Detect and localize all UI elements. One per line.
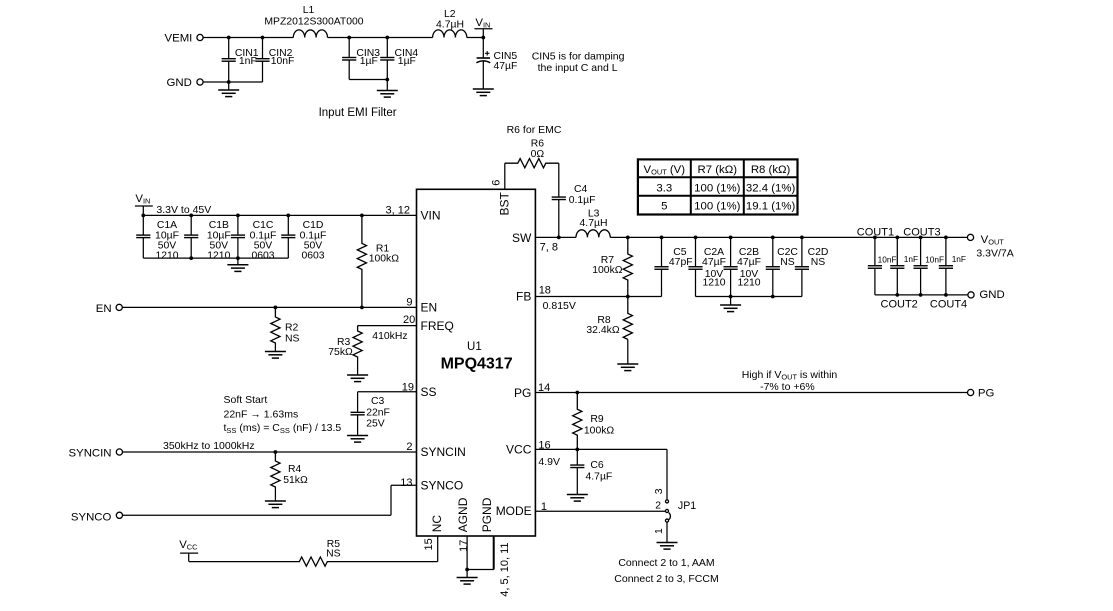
- svg-text:0.1µF: 0.1µF: [300, 230, 327, 241]
- svg-text:1210: 1210: [155, 250, 178, 261]
- svg-text:EN: EN: [96, 303, 112, 315]
- svg-text:4.7µH: 4.7µH: [436, 19, 464, 30]
- svg-text:R2: R2: [285, 323, 299, 334]
- svg-text:0603: 0603: [251, 250, 274, 261]
- svg-text:1µF: 1µF: [398, 56, 416, 67]
- svg-text:C1A: C1A: [157, 220, 177, 231]
- svg-text:7, 8: 7, 8: [540, 241, 558, 253]
- svg-text:Input EMI Filter: Input EMI Filter: [319, 107, 397, 119]
- svg-text:L2: L2: [444, 9, 456, 20]
- svg-text:NS: NS: [326, 549, 341, 560]
- svg-text:FB: FB: [516, 290, 531, 304]
- svg-text:NC: NC: [430, 515, 444, 533]
- svg-text:CIN5 is for damping: CIN5 is for damping: [532, 51, 625, 63]
- svg-text:C1C: C1C: [253, 220, 274, 231]
- svg-text:PG: PG: [514, 386, 531, 400]
- svg-text:the input C and L: the input C and L: [538, 62, 618, 74]
- svg-text:C1D: C1D: [303, 220, 324, 231]
- svg-text:1µF: 1µF: [360, 56, 378, 67]
- svg-text:4, 5, 10, 11: 4, 5, 10, 11: [499, 542, 511, 596]
- svg-text:U1: U1: [467, 341, 482, 353]
- svg-text:R8 (kΩ): R8 (kΩ): [751, 164, 791, 176]
- svg-text:18: 18: [539, 285, 551, 297]
- svg-text:4.7µF: 4.7µF: [586, 471, 613, 482]
- svg-text:GND: GND: [167, 77, 192, 89]
- svg-text:3: 3: [654, 488, 665, 494]
- svg-text:R9: R9: [590, 414, 604, 425]
- svg-text:C4: C4: [574, 184, 588, 195]
- svg-text:EN: EN: [421, 301, 438, 315]
- svg-text:410kHz: 410kHz: [372, 331, 407, 342]
- svg-text:25V: 25V: [366, 418, 385, 429]
- svg-text:2: 2: [655, 500, 661, 511]
- svg-text:6: 6: [490, 180, 502, 186]
- svg-text:-7% to +6%: -7% to +6%: [760, 381, 815, 393]
- svg-text:VIN: VIN: [421, 209, 441, 223]
- svg-text:47µF: 47µF: [494, 61, 518, 72]
- svg-text:15: 15: [423, 538, 435, 550]
- svg-text:COUT1: COUT1: [857, 227, 894, 239]
- svg-text:AGND: AGND: [456, 497, 470, 532]
- svg-text:4.9V: 4.9V: [538, 456, 560, 468]
- svg-text:10nF: 10nF: [271, 56, 295, 67]
- svg-text:14: 14: [538, 382, 550, 394]
- svg-text:SS: SS: [421, 385, 437, 399]
- svg-text:13: 13: [400, 477, 412, 489]
- svg-text:20: 20: [403, 314, 415, 326]
- svg-text:0.1µF: 0.1µF: [250, 230, 277, 241]
- svg-text:MPQ4317: MPQ4317: [441, 355, 513, 372]
- svg-text:1210: 1210: [702, 278, 725, 289]
- svg-text:SYNCIN: SYNCIN: [421, 445, 466, 459]
- svg-text:PGND: PGND: [480, 497, 494, 532]
- svg-text:R6 for EMC: R6 for EMC: [507, 124, 562, 136]
- svg-text:10nF: 10nF: [925, 254, 944, 264]
- svg-text:1: 1: [654, 528, 665, 534]
- svg-text:22nF → 1.63ms: 22nF → 1.63ms: [224, 409, 299, 421]
- svg-text:C3: C3: [371, 396, 385, 407]
- svg-text:SW: SW: [512, 231, 532, 245]
- svg-text:SYNCIN: SYNCIN: [69, 447, 112, 459]
- svg-text:100kΩ: 100kΩ: [592, 265, 623, 276]
- svg-text:NS: NS: [780, 257, 795, 268]
- svg-text:SYNCO: SYNCO: [421, 479, 464, 493]
- svg-text:32.4 (1%): 32.4 (1%): [746, 182, 796, 194]
- svg-text:4.7µH: 4.7µH: [580, 218, 608, 229]
- svg-text:0603: 0603: [301, 250, 324, 261]
- svg-text:COUT3: COUT3: [903, 227, 940, 239]
- svg-text:3.3: 3.3: [656, 182, 672, 194]
- svg-text:350kHz to 1000kHz: 350kHz to 1000kHz: [163, 440, 255, 452]
- svg-text:PG: PG: [978, 388, 995, 400]
- svg-text:NS: NS: [811, 257, 826, 268]
- svg-text:COUT2: COUT2: [881, 299, 918, 311]
- svg-text:SYNCO: SYNCO: [71, 512, 112, 524]
- svg-text:FREQ: FREQ: [421, 319, 454, 333]
- svg-text:75kΩ: 75kΩ: [328, 347, 353, 358]
- svg-text:1nF: 1nF: [904, 254, 918, 264]
- svg-text:100kΩ: 100kΩ: [584, 425, 615, 436]
- svg-text:COUT4: COUT4: [930, 299, 967, 311]
- svg-text:R4: R4: [288, 464, 302, 475]
- svg-text:1: 1: [541, 501, 547, 513]
- svg-text:17: 17: [458, 540, 470, 552]
- svg-text:Connect 2 to 3, FCCM: Connect 2 to 3, FCCM: [614, 573, 718, 585]
- svg-text:47µF: 47µF: [737, 257, 761, 268]
- svg-text:2: 2: [406, 441, 412, 453]
- svg-text:3, 12: 3, 12: [386, 204, 410, 216]
- svg-text:0.815V: 0.815V: [543, 300, 576, 312]
- svg-text:16: 16: [538, 439, 550, 451]
- svg-text:51kΩ: 51kΩ: [283, 475, 308, 486]
- svg-text:VEMI: VEMI: [165, 32, 193, 44]
- svg-text:1210: 1210: [737, 278, 760, 289]
- svg-text:1nF: 1nF: [239, 56, 257, 67]
- svg-text:C6: C6: [590, 460, 604, 471]
- svg-text:1nF: 1nF: [952, 254, 966, 264]
- svg-text:Soft Start: Soft Start: [224, 394, 268, 406]
- svg-text:C1B: C1B: [209, 220, 229, 231]
- svg-text:NS: NS: [285, 333, 300, 344]
- svg-text:10nF: 10nF: [878, 254, 897, 264]
- svg-text:47µF: 47µF: [702, 257, 726, 268]
- svg-text:L1: L1: [303, 5, 315, 16]
- svg-text:3.3V/7A: 3.3V/7A: [976, 247, 1013, 259]
- svg-text:MODE: MODE: [496, 504, 532, 518]
- svg-text:5: 5: [661, 201, 667, 213]
- svg-text:10µF: 10µF: [155, 230, 179, 241]
- svg-text:19: 19: [402, 382, 414, 394]
- svg-text:GND: GND: [979, 289, 1004, 301]
- svg-text:19.1 (1%): 19.1 (1%): [746, 201, 796, 213]
- svg-text:R6: R6: [531, 139, 545, 150]
- svg-text:1210: 1210: [207, 250, 230, 261]
- svg-text:100 (1%): 100 (1%): [694, 201, 740, 213]
- svg-text:22nF: 22nF: [366, 408, 390, 419]
- svg-text:100kΩ: 100kΩ: [369, 254, 400, 265]
- svg-text:0.1µF: 0.1µF: [569, 195, 596, 206]
- svg-text:3.3V to 45V: 3.3V to 45V: [156, 204, 211, 216]
- svg-text:VCC: VCC: [506, 443, 532, 457]
- svg-text:Connect 2 to 1, AAM: Connect 2 to 1, AAM: [618, 557, 714, 569]
- svg-text:100 (1%): 100 (1%): [694, 182, 740, 194]
- svg-text:BST: BST: [498, 191, 512, 215]
- svg-text:JP1: JP1: [678, 500, 696, 512]
- svg-text:9: 9: [406, 297, 412, 309]
- svg-text:R7 (kΩ): R7 (kΩ): [698, 164, 738, 176]
- svg-text:0Ω: 0Ω: [531, 149, 545, 160]
- svg-text:10µF: 10µF: [207, 230, 231, 241]
- svg-text:MPZ2012S300AT000: MPZ2012S300AT000: [264, 17, 363, 28]
- svg-text:32.4kΩ: 32.4kΩ: [586, 325, 619, 336]
